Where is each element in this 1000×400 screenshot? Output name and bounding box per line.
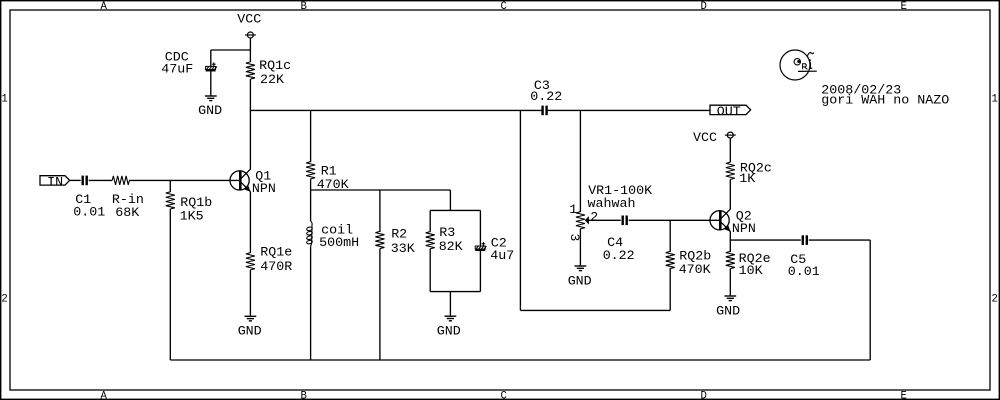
wire box left upper <box>429 210 431 231</box>
resistor RQ1c <box>246 62 255 79</box>
resistor R2 <box>375 231 384 248</box>
wire VCC1 to RQ1c <box>249 38 251 62</box>
wire box bottom <box>430 291 480 293</box>
transistor Q2 <box>710 209 731 232</box>
svg-text:82K: 82K <box>439 240 463 255</box>
wire return horizontal <box>520 309 670 311</box>
wire RQ1b to bottom bus <box>169 209 171 360</box>
wire box right lower <box>479 250 481 291</box>
resistor R3 <box>426 232 435 249</box>
wire RQ2c to Q2 collector <box>729 179 731 209</box>
svg-text:R2: R2 <box>391 228 407 243</box>
logo face doodle <box>780 50 817 80</box>
svg-text:GND: GND <box>198 104 222 119</box>
svg-text:47uF: 47uF <box>161 62 193 77</box>
wire C5 to corner <box>809 239 870 241</box>
wire box left lower <box>429 249 431 292</box>
svg-text:E: E <box>901 391 907 400</box>
wire node to R2 <box>379 190 381 232</box>
wire VCC1 node to CDC <box>211 49 251 51</box>
capacitor C5 <box>803 235 807 245</box>
wiper arrow VR1 <box>585 216 589 224</box>
wire coil to bottom bus <box>310 246 312 360</box>
svg-text:NPN: NPN <box>732 222 756 237</box>
wire bus to VR1 <box>579 110 581 212</box>
resistor RQ2b <box>666 251 675 268</box>
svg-text:R3: R3 <box>439 226 455 241</box>
wire box right upper <box>479 210 481 246</box>
svg-text:2: 2 <box>1 293 7 305</box>
svg-text:A: A <box>101 391 108 400</box>
svg-text:1: 1 <box>569 203 577 218</box>
ground Q1 emitter <box>245 316 257 321</box>
capacitor C2 <box>475 242 486 250</box>
resistor RQ2e <box>726 251 735 268</box>
svg-text:C: C <box>501 391 507 400</box>
svg-text:470K: 470K <box>679 263 711 278</box>
wire box stub <box>449 190 451 210</box>
ground CDC <box>205 96 217 101</box>
svg-text:C: C <box>501 1 507 13</box>
wire bus to R1 <box>310 110 312 162</box>
wire emitter to C5 <box>730 239 801 241</box>
wire Q2 emitter <box>729 232 731 253</box>
svg-text:10K: 10K <box>739 264 763 279</box>
port OUT <box>710 105 751 120</box>
wire box to ground <box>449 292 451 317</box>
wire RQ1e to ground <box>249 270 251 317</box>
wire R2 to bottom bus <box>379 249 381 361</box>
svg-text:NPN: NPN <box>252 182 276 197</box>
port IN <box>40 176 70 191</box>
svg-text:B: B <box>301 391 307 400</box>
svg-text:470R: 470R <box>260 260 292 275</box>
wire base node to RQ1b <box>169 180 171 192</box>
wire C3 to OUT <box>547 109 710 111</box>
svg-text:D: D <box>701 1 707 13</box>
svg-text:3: 3 <box>566 233 581 241</box>
wire R-in to Q1 base <box>129 179 240 181</box>
svg-text:VCC: VCC <box>693 131 717 146</box>
wire wiper to C4 <box>589 219 621 221</box>
svg-text:VCC: VCC <box>237 13 261 28</box>
svg-text:1: 1 <box>992 93 998 105</box>
resistor R-in <box>112 176 129 185</box>
svg-text:68K: 68K <box>115 206 139 221</box>
wire R1 node to box <box>311 189 451 191</box>
wire return to RQ2b <box>669 268 671 310</box>
wire Q1 emitter to RQ1e <box>249 192 251 253</box>
ground Q2 emitter <box>724 296 736 301</box>
svg-text:IN: IN <box>47 176 63 191</box>
svg-text:22K: 22K <box>260 73 284 88</box>
svg-text:B: B <box>301 1 307 13</box>
wire RQ2e to ground <box>729 269 731 297</box>
wire right vertical <box>869 240 871 360</box>
wire bottom bus <box>170 359 870 361</box>
capacitor C3 <box>543 106 547 116</box>
svg-text:1K: 1K <box>739 172 755 187</box>
svg-text:gori WAH no NAZO: gori WAH no NAZO <box>821 93 949 108</box>
svg-text:D: D <box>701 391 707 400</box>
wire IN to C1 <box>70 179 81 181</box>
svg-text:GND: GND <box>238 324 262 339</box>
inductor coil <box>306 221 312 246</box>
svg-text:1: 1 <box>1 93 7 105</box>
svg-text:1K5: 1K5 <box>180 210 204 225</box>
power VCC2 symbol <box>725 132 736 138</box>
svg-text:OUT: OUT <box>717 105 741 120</box>
svg-text:33K: 33K <box>391 242 415 257</box>
wire node down left of C3 <box>519 110 521 310</box>
capacitor C4 <box>623 216 627 226</box>
svg-text:0.22: 0.22 <box>530 90 562 105</box>
power VCC1 symbol <box>245 32 256 38</box>
svg-text:GND: GND <box>716 305 740 320</box>
wire VR1 to ground <box>579 228 581 266</box>
svg-text:2: 2 <box>992 293 998 305</box>
svg-text:A: A <box>101 1 108 13</box>
wire C1 to R-in <box>89 179 113 181</box>
transistor Q1 <box>230 169 251 192</box>
svg-text:E: E <box>901 1 907 13</box>
ground box <box>445 316 457 321</box>
resistor RQ1e <box>246 253 255 270</box>
capacitor C1 <box>83 176 87 186</box>
wire C4 to Q2 base <box>629 219 720 221</box>
svg-text:2: 2 <box>590 210 598 225</box>
wire bus collector to C3 <box>250 109 542 111</box>
wire CDC to ground <box>210 71 212 96</box>
svg-text:RQ1e: RQ1e <box>260 245 292 260</box>
wire node to RQ2b <box>669 220 671 252</box>
resistor RQ2c <box>726 162 735 179</box>
svg-text:GND: GND <box>437 325 461 340</box>
ground VR1 <box>575 266 587 271</box>
potentiometer VR1 <box>576 212 585 229</box>
svg-text:500mH: 500mH <box>319 236 359 251</box>
svg-text:0.01: 0.01 <box>73 205 105 220</box>
resistor RQ1b <box>166 192 175 209</box>
svg-text:RQ1c: RQ1c <box>259 59 291 74</box>
wire box top <box>430 209 480 211</box>
capacitor CDC <box>206 62 217 70</box>
svg-text:0.22: 0.22 <box>603 249 635 264</box>
resistor R1 <box>306 162 315 179</box>
wire VCC2 to RQ2c <box>729 138 731 162</box>
svg-text:0.01: 0.01 <box>788 265 820 280</box>
wire RQ1c to Q1 collector <box>249 79 251 170</box>
wire CDC top <box>210 50 212 66</box>
svg-text:GND: GND <box>568 275 592 290</box>
svg-text:4u7: 4u7 <box>490 249 514 264</box>
wire R1 to coil <box>310 179 312 222</box>
